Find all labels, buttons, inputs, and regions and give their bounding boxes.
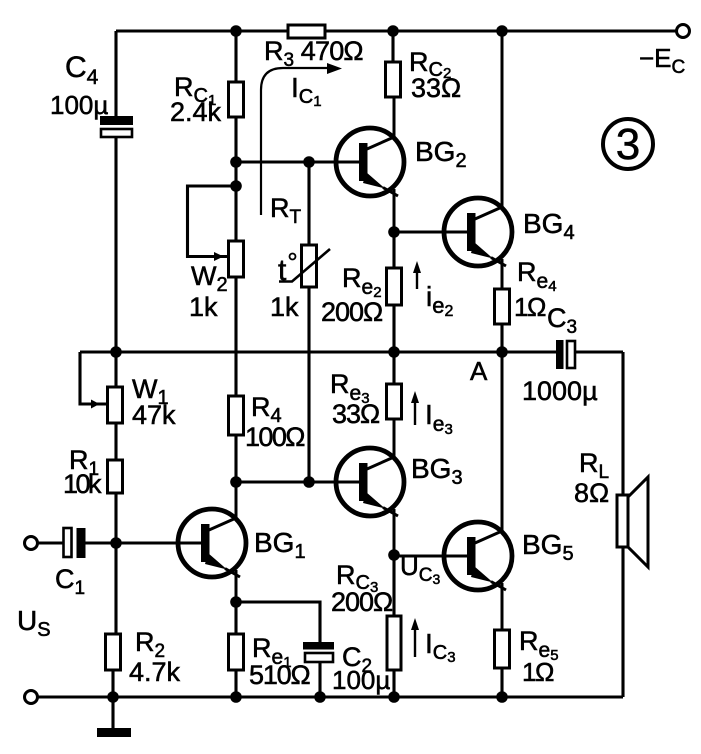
wire top rail [116,29,677,32]
svg-text:1Ω: 1Ω [514,292,546,322]
node mid rail left column [110,346,122,358]
potentiometer W1 body [108,352,123,460]
node bottom R2 [107,691,119,703]
resistor R1 [108,460,123,634]
node top rail RC1 [230,25,242,37]
resistor Re4 [495,289,510,352]
svg-text:1k: 1k [189,292,218,322]
resistor Re3 [387,384,402,419]
node bottom C2 [314,691,326,703]
svg-text:1k: 1k [270,292,299,322]
wire BG5 base row [394,554,475,557]
svg-text:t: t [278,254,287,287]
node mid rail Re2/Re3 [388,346,400,358]
node BG5 base / UC3 [388,549,400,561]
svg-text:8Ω: 8Ω [574,478,609,508]
resistor RC3 [387,555,401,697]
resistor RC1 [229,31,244,240]
resistor Re2 [387,232,402,384]
terminal input bottom [25,691,38,704]
svg-text:200Ω: 200Ω [321,297,383,327]
transistor BG5 [444,352,512,630]
terminal -Ec [677,25,690,38]
wire left column C4 branch top [114,31,117,116]
potentiometer W2 body [229,241,244,396]
resistor Re1 [229,602,244,697]
node thermistor top junction [303,156,315,168]
transistor BG1 [178,482,246,602]
resistor R2 [106,634,121,697]
svg-text:A: A [470,356,488,386]
thermistor RT body [279,245,330,482]
capacitor C1 [64,528,86,558]
wire input to C1 [38,541,66,544]
potentiometer W1 wiper arrow [91,400,100,409]
node BG3 base R4 [230,476,242,488]
transistor BG4 [444,31,512,289]
capacitor C2 [303,642,334,697]
svg-text:1000µ: 1000µ [522,376,598,406]
svg-text:47k: 47k [132,400,176,430]
thermistor RT column [307,162,310,245]
current arrow IC3 [411,618,419,657]
terminal input top [25,537,38,550]
potentiometer W1 loop wire [80,352,107,404]
node BG3 base thermistor [303,476,315,488]
wire BG4 base row [394,230,475,233]
figure number 3 in circle [603,119,653,169]
svg-text:R3 470Ω: R3 470Ω [264,36,363,71]
svg-text:200Ω: 200Ω [331,587,393,617]
node bottom Re1 [230,691,242,703]
capacitor C3 [556,340,623,369]
current arrow ie2 [413,261,421,289]
resistor RC2 [386,31,401,97]
transistor BG2 [336,97,404,232]
potentiometer W2 wiper arrow [214,252,224,261]
transistor BG3 [336,419,404,555]
wire BG3 base row [236,480,367,483]
svg-text:510Ω: 510Ω [249,660,310,690]
current arrow IC1 [261,63,342,215]
wire right column top [621,352,624,495]
svg-text:100Ω: 100Ω [245,422,305,452]
ground [97,697,131,737]
node top rail RC2 [387,25,399,37]
resistor Re5 [495,630,510,697]
node A [496,346,508,358]
svg-text:1Ω: 1Ω [522,657,554,687]
node C1/R1 junction [110,537,122,549]
svg-text:33Ω: 33Ω [411,73,461,103]
resistor R4 [229,396,244,482]
label t° [278,254,296,288]
wire C1 to BG1 base [86,541,210,544]
resistor R3 [288,25,325,38]
wire mid rail [80,350,556,353]
svg-text:100µ: 100µ [50,90,108,120]
wire right column bottom [621,547,624,697]
wire left column C4 to mid rail [114,137,117,352]
wire BG1 emitter node to C2 [236,602,320,642]
node BG1 emitter [230,596,242,608]
svg-text:2.4k: 2.4k [170,97,222,127]
svg-text:33Ω: 33Ω [332,399,380,429]
svg-text:4.7k: 4.7k [129,657,181,687]
capacitor C4 [100,116,133,137]
node W2 tap [230,180,242,192]
wire BG2 base row [236,160,367,163]
svg-text:10k: 10k [63,469,102,499]
node bottom Re5 [496,691,508,703]
speaker RL [617,477,648,567]
svg-text:100µ: 100µ [332,665,390,695]
node BG4 base junction [388,226,400,238]
svg-text:3: 3 [616,120,640,169]
node top rail BG4 collector [496,25,508,37]
node RC1/BG2 base junction [230,156,242,168]
node bottom RC3 [388,691,400,703]
potentiometer W2 loop wire [188,186,237,257]
current arrow Ie3 [411,391,419,425]
wire bottom rail [38,695,624,698]
